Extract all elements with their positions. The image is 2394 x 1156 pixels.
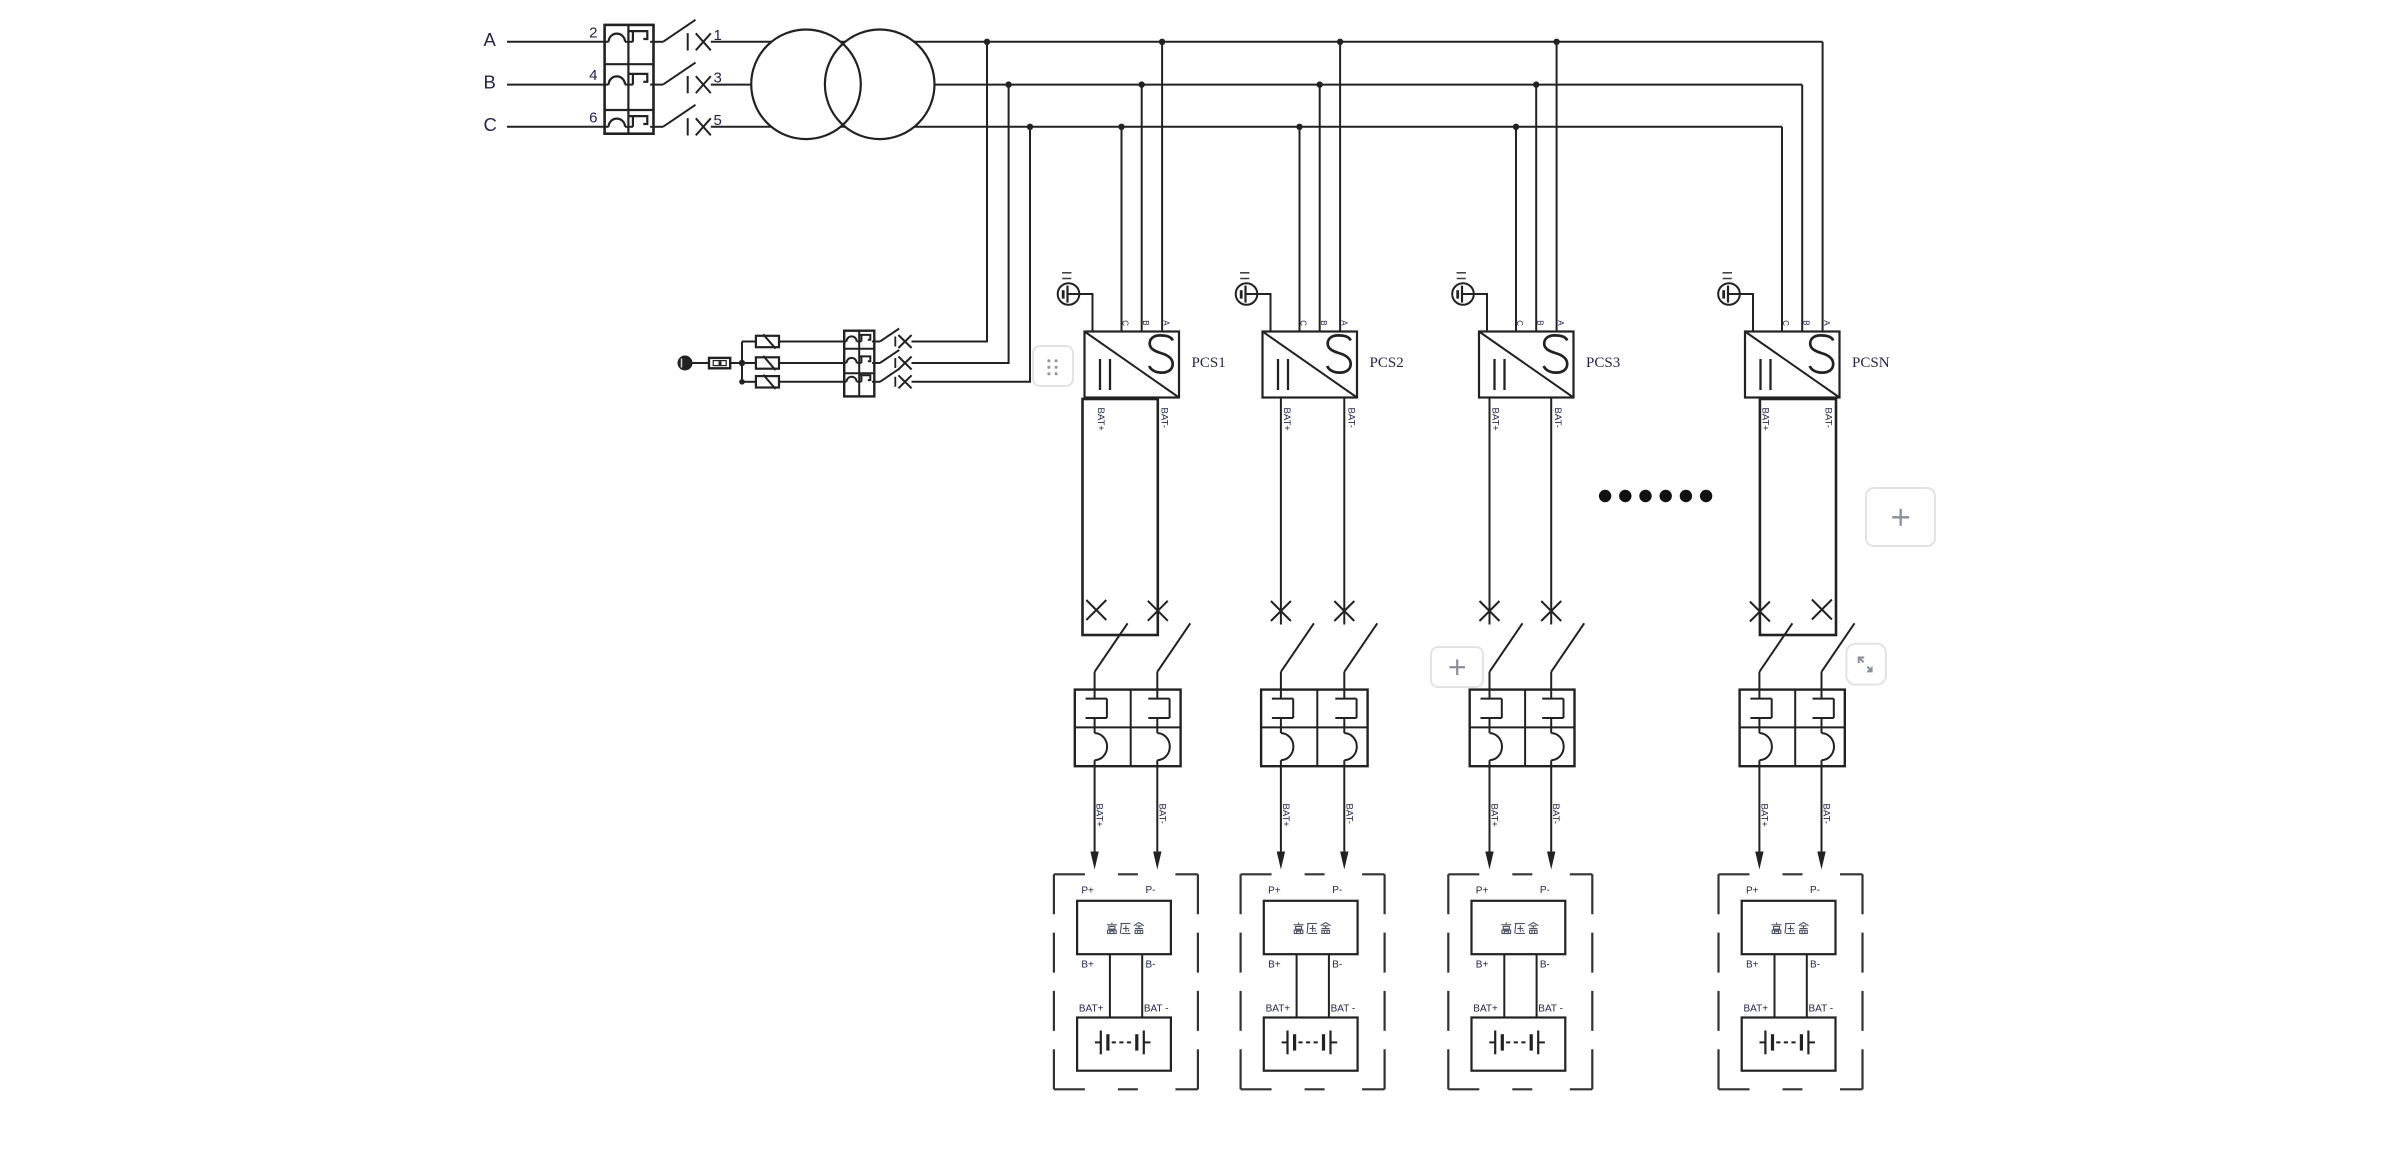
svg-text:PCS3: PCS3 xyxy=(1586,355,1620,371)
svg-text:A: A xyxy=(1556,320,1565,326)
svg-text:BAT+: BAT+ xyxy=(1281,408,1292,432)
svg-text:BAT -: BAT - xyxy=(1144,1003,1169,1014)
svg-text:A: A xyxy=(484,29,497,50)
svg-text:B-: B- xyxy=(1332,960,1342,971)
svg-text:B: B xyxy=(1801,320,1810,325)
svg-text:PCS2: PCS2 xyxy=(1370,355,1404,371)
svg-text:B+: B+ xyxy=(1746,960,1759,971)
svg-text:BAT-: BAT- xyxy=(1821,804,1832,824)
svg-text:BAT+: BAT+ xyxy=(1280,804,1291,828)
svg-text:B: B xyxy=(1141,320,1150,325)
svg-text:BAT -: BAT - xyxy=(1331,1003,1356,1014)
svg-text:A: A xyxy=(1339,320,1348,326)
svg-text:B+: B+ xyxy=(1081,960,1094,971)
svg-text:BAT+: BAT+ xyxy=(1744,1003,1769,1014)
svg-text:P-: P- xyxy=(1810,885,1820,896)
svg-text:A: A xyxy=(1161,320,1170,326)
svg-text:B: B xyxy=(1319,320,1328,325)
svg-text:6: 6 xyxy=(589,109,597,126)
svg-text:A: A xyxy=(1822,320,1831,326)
svg-text:BAT+: BAT+ xyxy=(1760,408,1771,432)
svg-text:BAT-: BAT- xyxy=(1158,408,1169,428)
svg-text:BAT+: BAT+ xyxy=(1758,804,1769,828)
svg-text:C: C xyxy=(484,114,497,135)
svg-text:BAT+: BAT+ xyxy=(1490,408,1501,432)
svg-text:BAT+: BAT+ xyxy=(1079,1003,1104,1014)
svg-text:P+: P+ xyxy=(1081,886,1094,897)
svg-text:BAT-: BAT- xyxy=(1343,804,1354,824)
svg-text:B-: B- xyxy=(1146,960,1156,971)
svg-text:C: C xyxy=(1515,320,1524,326)
svg-text:BAT+: BAT+ xyxy=(1095,408,1106,432)
svg-text:BAT-: BAT- xyxy=(1552,408,1563,428)
svg-text:BAT+: BAT+ xyxy=(1094,804,1105,828)
svg-text:BAT-: BAT- xyxy=(1345,408,1356,428)
svg-text:B-: B- xyxy=(1810,960,1820,971)
svg-text:B-: B- xyxy=(1540,960,1550,971)
svg-text:BAT+: BAT+ xyxy=(1473,1003,1498,1014)
svg-text:B: B xyxy=(1535,320,1544,325)
svg-text:BAT+: BAT+ xyxy=(1489,804,1500,828)
svg-text:P-: P- xyxy=(1146,885,1156,896)
svg-text:2: 2 xyxy=(589,24,597,41)
svg-text:B+: B+ xyxy=(1268,960,1281,971)
svg-text:P-: P- xyxy=(1332,885,1342,896)
svg-text:C: C xyxy=(1299,320,1308,326)
svg-text:B: B xyxy=(484,72,496,93)
svg-text:P+: P+ xyxy=(1476,886,1489,897)
svg-text:BAT+: BAT+ xyxy=(1266,1003,1291,1014)
svg-text:P+: P+ xyxy=(1268,886,1281,897)
svg-text:C: C xyxy=(1781,320,1790,326)
svg-text:4: 4 xyxy=(589,67,597,84)
svg-text:BAT-: BAT- xyxy=(1156,804,1167,824)
svg-text:BAT-: BAT- xyxy=(1823,408,1834,428)
svg-text:B+: B+ xyxy=(1476,960,1489,971)
svg-text:P+: P+ xyxy=(1746,886,1759,897)
svg-text:P-: P- xyxy=(1540,885,1550,896)
svg-text:PCS1: PCS1 xyxy=(1192,355,1226,371)
svg-text:C: C xyxy=(1121,320,1130,326)
svg-text:BAT -: BAT - xyxy=(1538,1003,1563,1014)
svg-text:PCSN: PCSN xyxy=(1852,355,1890,371)
svg-text:BAT -: BAT - xyxy=(1809,1003,1834,1014)
svg-text:BAT-: BAT- xyxy=(1550,804,1561,824)
